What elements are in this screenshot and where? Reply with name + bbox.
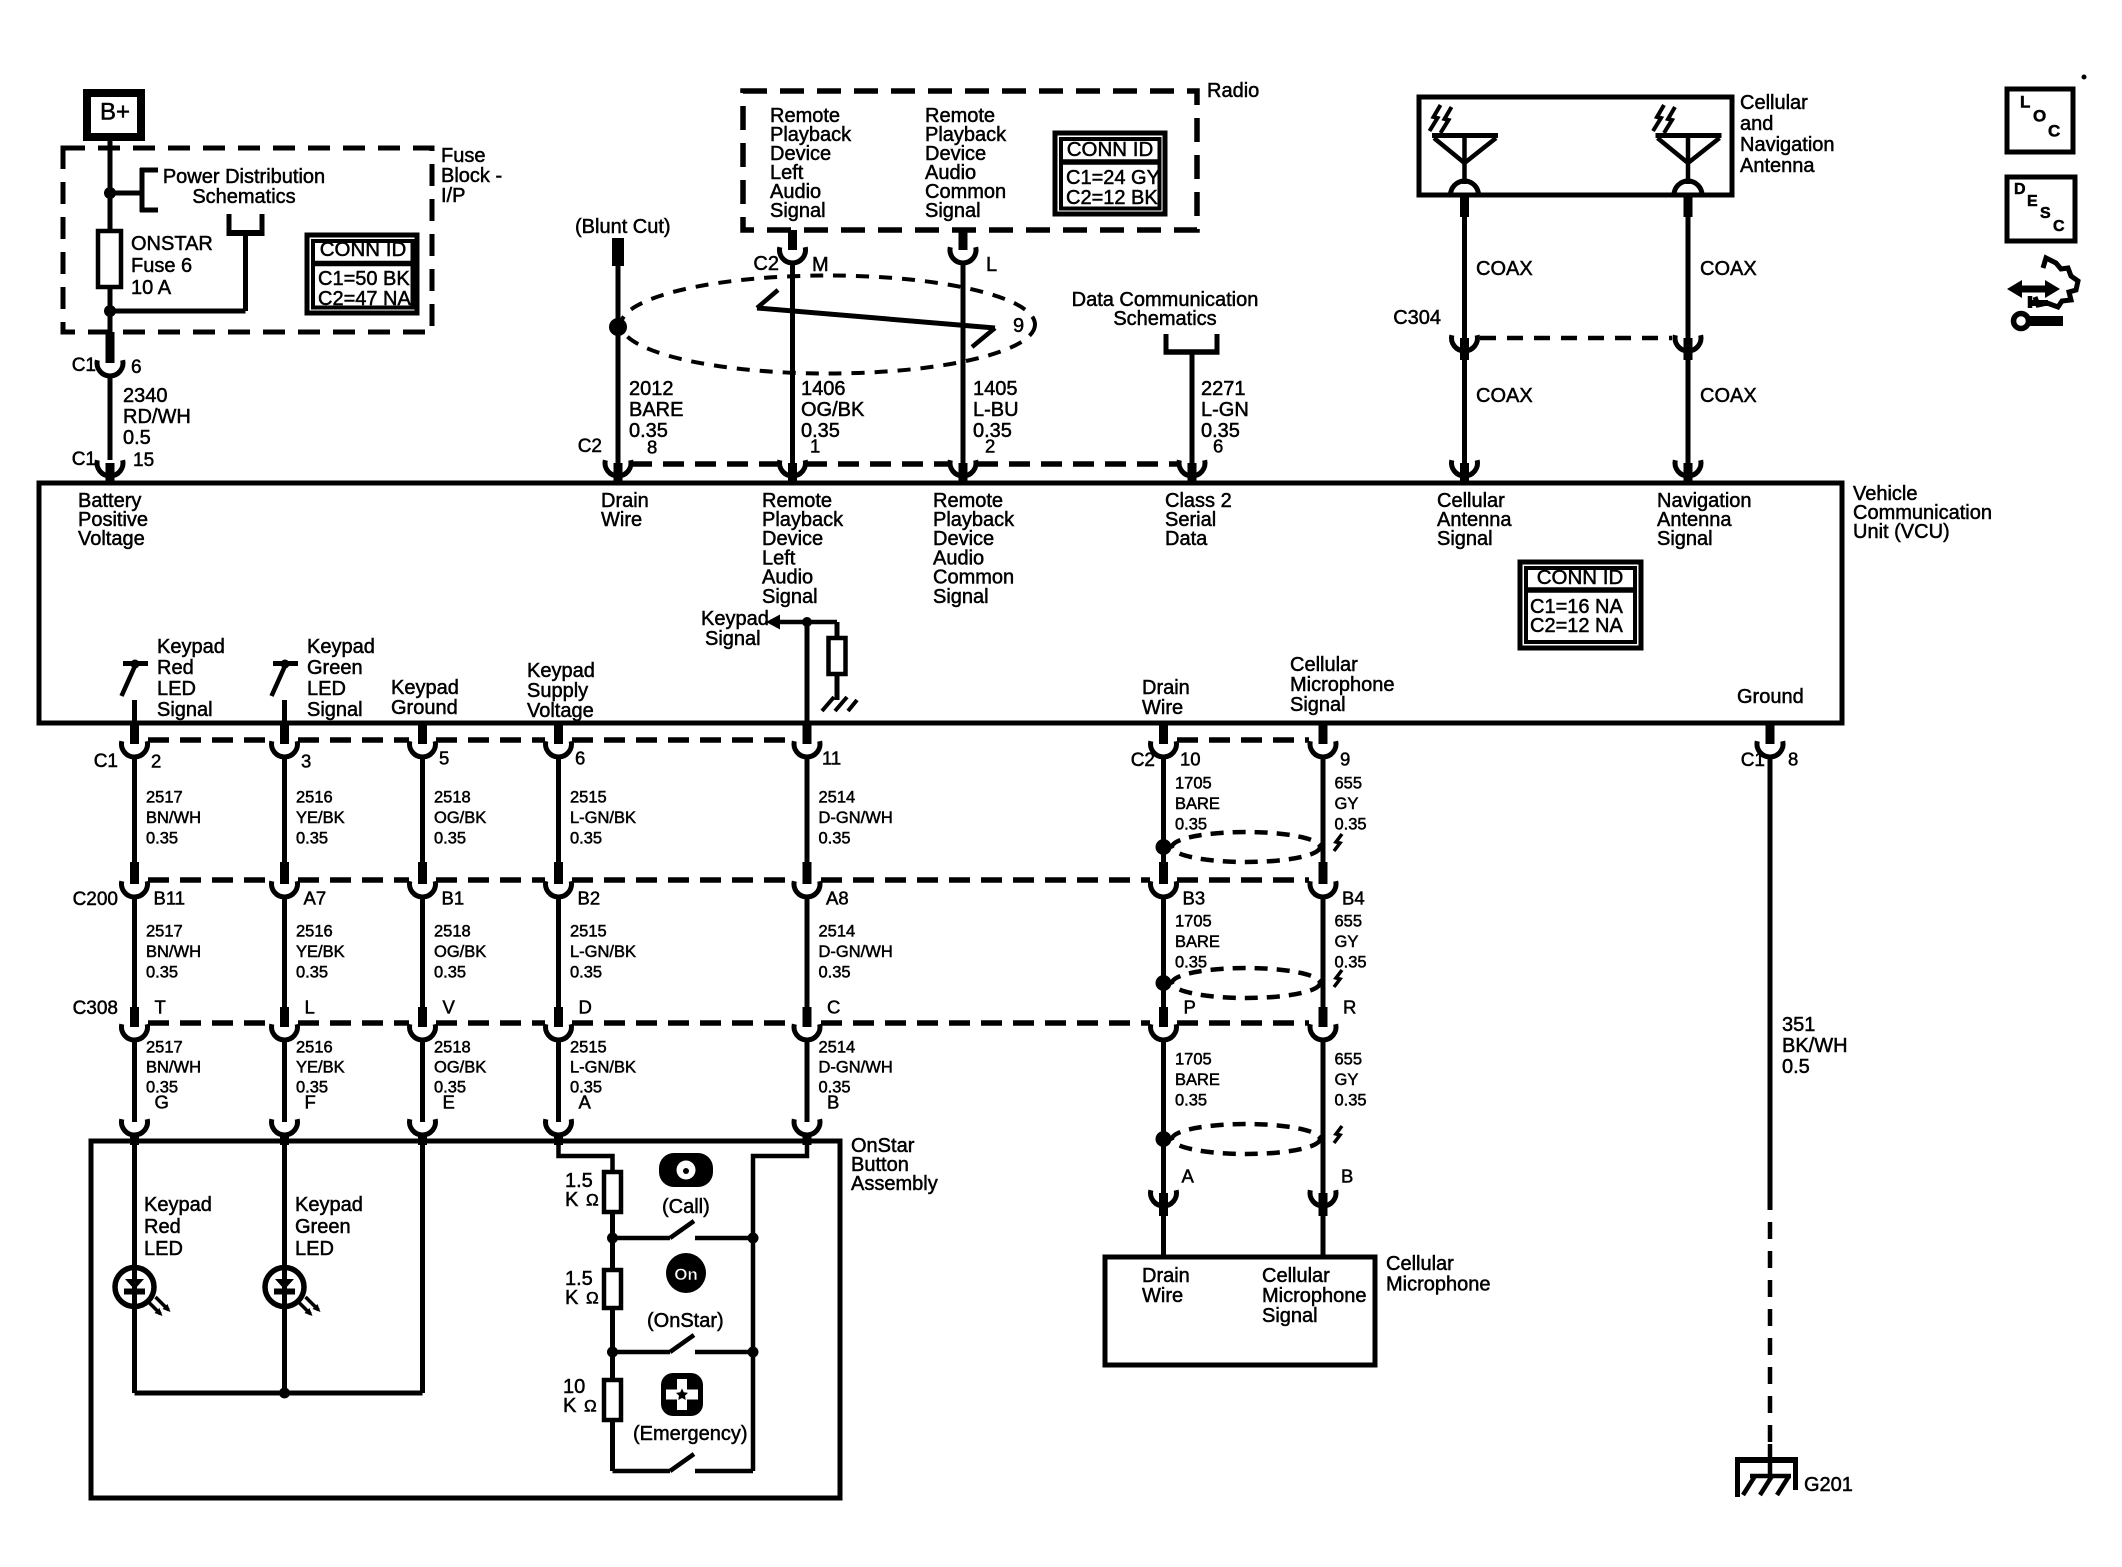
svg-text:B1: B1 bbox=[442, 888, 465, 909]
svg-text:BN/WH: BN/WH bbox=[146, 943, 201, 961]
svg-text:C2: C2 bbox=[753, 253, 779, 275]
svg-text:Keypad: Keypad bbox=[307, 636, 375, 658]
svg-text:C200: C200 bbox=[73, 889, 118, 910]
svg-text:S: S bbox=[2040, 205, 2051, 222]
svg-text:Ground: Ground bbox=[391, 697, 458, 719]
svg-text:2515: 2515 bbox=[570, 788, 607, 806]
svg-text:C1: C1 bbox=[72, 355, 96, 376]
svg-text:L-GN: L-GN bbox=[1201, 399, 1249, 421]
svg-text:BARE: BARE bbox=[1175, 795, 1220, 813]
svg-text:2518: 2518 bbox=[434, 1038, 471, 1056]
svg-text:A8: A8 bbox=[826, 888, 849, 909]
svg-text:Schematics: Schematics bbox=[1113, 308, 1216, 330]
svg-text:L-GN/BK: L-GN/BK bbox=[570, 943, 636, 961]
svg-text:Signal: Signal bbox=[307, 699, 363, 721]
svg-text:C2=12 BK: C2=12 BK bbox=[1066, 187, 1158, 209]
svg-text:Green: Green bbox=[295, 1216, 351, 1238]
svg-text:B: B bbox=[1341, 1166, 1353, 1187]
svg-text:Keypad: Keypad bbox=[701, 608, 769, 630]
svg-text:0.35: 0.35 bbox=[296, 963, 328, 981]
svg-text:2514: 2514 bbox=[819, 788, 856, 806]
svg-text:CONN ID: CONN ID bbox=[1537, 566, 1624, 589]
svg-text:GY: GY bbox=[1335, 933, 1359, 951]
svg-text:Schematics: Schematics bbox=[192, 186, 295, 208]
svg-text:LED: LED bbox=[307, 678, 346, 700]
svg-text:OG/BK: OG/BK bbox=[434, 943, 486, 961]
svg-text:Microphone: Microphone bbox=[1262, 1285, 1367, 1307]
svg-text:Wire: Wire bbox=[1142, 697, 1183, 719]
svg-text:0.35: 0.35 bbox=[570, 829, 602, 847]
svg-text:Signal: Signal bbox=[705, 628, 761, 650]
svg-text:5: 5 bbox=[439, 748, 449, 769]
svg-text:L: L bbox=[2020, 93, 2030, 112]
svg-text:Wire: Wire bbox=[601, 509, 642, 531]
svg-text:F: F bbox=[305, 1092, 316, 1113]
svg-text:2516: 2516 bbox=[296, 922, 333, 940]
svg-text:Ω: Ω bbox=[586, 1191, 599, 1210]
svg-text:E: E bbox=[2027, 193, 2038, 210]
svg-text:0.35: 0.35 bbox=[146, 829, 178, 847]
svg-text:Cellular: Cellular bbox=[1386, 1253, 1454, 1275]
svg-text:1405: 1405 bbox=[973, 378, 1018, 400]
svg-text:K: K bbox=[565, 1189, 579, 1211]
svg-text:8: 8 bbox=[1788, 749, 1798, 770]
svg-text:0.35: 0.35 bbox=[1201, 420, 1240, 442]
svg-text:L-GN/BK: L-GN/BK bbox=[570, 809, 636, 827]
svg-text:Ω: Ω bbox=[584, 1397, 597, 1416]
svg-text:0.35: 0.35 bbox=[801, 420, 840, 442]
svg-text:C1: C1 bbox=[1741, 750, 1765, 771]
svg-text:0.35: 0.35 bbox=[434, 829, 466, 847]
svg-text:Signal: Signal bbox=[925, 200, 981, 222]
svg-text:Signal: Signal bbox=[1290, 694, 1346, 716]
svg-text:Navigation: Navigation bbox=[1740, 134, 1835, 156]
svg-text:G201: G201 bbox=[1804, 1474, 1853, 1496]
svg-text:RD/WH: RD/WH bbox=[123, 406, 191, 428]
svg-text:E: E bbox=[443, 1092, 455, 1113]
svg-text:(OnStar): (OnStar) bbox=[647, 1310, 724, 1332]
svg-text:C2=47 NA: C2=47 NA bbox=[318, 288, 411, 310]
svg-text:COAX: COAX bbox=[1476, 258, 1533, 280]
svg-text:B3: B3 bbox=[1183, 888, 1206, 909]
svg-text:COAX: COAX bbox=[1700, 258, 1757, 280]
svg-text:Ω: Ω bbox=[586, 1289, 599, 1308]
svg-text:Keypad: Keypad bbox=[157, 636, 225, 658]
svg-text:C1: C1 bbox=[72, 449, 96, 470]
svg-text:10: 10 bbox=[1180, 749, 1201, 770]
svg-text:Microphone: Microphone bbox=[1290, 674, 1395, 696]
svg-text:0.5: 0.5 bbox=[123, 427, 151, 449]
svg-text:Drain: Drain bbox=[1142, 677, 1190, 699]
svg-text:C1=24 GY: C1=24 GY bbox=[1066, 167, 1160, 189]
svg-text:0.35: 0.35 bbox=[434, 963, 466, 981]
svg-text:Data: Data bbox=[1165, 528, 1208, 550]
svg-text:D-GN/WH: D-GN/WH bbox=[819, 1058, 893, 1076]
svg-text:YE/BK: YE/BK bbox=[296, 943, 345, 961]
svg-text:Keypad: Keypad bbox=[295, 1194, 363, 1216]
svg-text:L-BU: L-BU bbox=[973, 399, 1019, 421]
svg-text:COAX: COAX bbox=[1476, 385, 1533, 407]
svg-text:Signal: Signal bbox=[1437, 528, 1493, 550]
svg-text:I/P: I/P bbox=[441, 185, 465, 207]
svg-text:2518: 2518 bbox=[434, 922, 471, 940]
svg-text:Voltage: Voltage bbox=[527, 700, 594, 722]
svg-text:Signal: Signal bbox=[770, 200, 826, 222]
svg-text:K: K bbox=[565, 1287, 579, 1309]
svg-text:C: C bbox=[827, 997, 840, 1018]
svg-text:BARE: BARE bbox=[629, 399, 683, 421]
svg-text:and: and bbox=[1740, 113, 1773, 135]
svg-text:D: D bbox=[579, 997, 592, 1018]
svg-text:3: 3 bbox=[301, 751, 311, 772]
svg-text:655: 655 bbox=[1335, 1050, 1363, 1068]
svg-text:655: 655 bbox=[1335, 912, 1363, 930]
svg-text:655: 655 bbox=[1335, 774, 1363, 792]
svg-text:0.35: 0.35 bbox=[1175, 1091, 1207, 1109]
svg-text:2: 2 bbox=[151, 751, 161, 772]
svg-text:Wire: Wire bbox=[1142, 1285, 1183, 1307]
svg-text:OG/BK: OG/BK bbox=[434, 809, 486, 827]
svg-text:2271: 2271 bbox=[1201, 378, 1246, 400]
svg-text:Microphone: Microphone bbox=[1386, 1273, 1491, 1295]
svg-text:BN/WH: BN/WH bbox=[146, 1058, 201, 1076]
svg-text:OG/BK: OG/BK bbox=[801, 399, 865, 421]
svg-text:C: C bbox=[2053, 218, 2065, 235]
svg-text:Voltage: Voltage bbox=[78, 528, 145, 550]
svg-text:1705: 1705 bbox=[1175, 912, 1212, 930]
svg-text:2340: 2340 bbox=[123, 385, 168, 407]
svg-text:0.35: 0.35 bbox=[146, 963, 178, 981]
svg-text:CONN ID: CONN ID bbox=[320, 238, 407, 261]
svg-text:Signal: Signal bbox=[1657, 528, 1713, 550]
svg-text:C1=50 BK: C1=50 BK bbox=[318, 268, 410, 290]
svg-text:0.35: 0.35 bbox=[819, 963, 851, 981]
svg-text:0.35: 0.35 bbox=[296, 829, 328, 847]
svg-text:BK/WH: BK/WH bbox=[1782, 1035, 1848, 1057]
svg-text:YE/BK: YE/BK bbox=[296, 1058, 345, 1076]
svg-text:9: 9 bbox=[1013, 315, 1024, 337]
svg-text:C308: C308 bbox=[73, 998, 118, 1019]
svg-text:2517: 2517 bbox=[146, 788, 183, 806]
svg-text:6: 6 bbox=[575, 748, 585, 769]
svg-text:D-GN/WH: D-GN/WH bbox=[819, 809, 893, 827]
svg-text:D: D bbox=[2014, 181, 2026, 198]
svg-text:Keypad: Keypad bbox=[391, 677, 459, 699]
svg-text:B4: B4 bbox=[1342, 888, 1365, 909]
svg-text:A7: A7 bbox=[304, 888, 327, 909]
svg-text:Fuse 6: Fuse 6 bbox=[131, 255, 192, 277]
svg-text:O: O bbox=[2033, 107, 2046, 126]
svg-text:LED: LED bbox=[144, 1238, 183, 1260]
svg-text:(Emergency): (Emergency) bbox=[633, 1423, 747, 1445]
svg-text:Green: Green bbox=[307, 657, 363, 679]
svg-text:1406: 1406 bbox=[801, 378, 846, 400]
svg-text:2516: 2516 bbox=[296, 788, 333, 806]
svg-text:CONN ID: CONN ID bbox=[1067, 138, 1154, 161]
svg-text:Supply: Supply bbox=[527, 680, 588, 702]
svg-text:Red: Red bbox=[157, 657, 194, 679]
svg-text:LED: LED bbox=[157, 678, 196, 700]
svg-text:15: 15 bbox=[133, 450, 154, 471]
svg-text:Block -: Block - bbox=[441, 165, 502, 187]
svg-text:2517: 2517 bbox=[146, 1038, 183, 1056]
svg-text:Unit (VCU): Unit (VCU) bbox=[1853, 521, 1950, 543]
svg-text:B2: B2 bbox=[578, 888, 601, 909]
svg-text:Cellular: Cellular bbox=[1262, 1265, 1330, 1287]
svg-text:Power Distribution: Power Distribution bbox=[163, 166, 325, 188]
svg-text:Signal: Signal bbox=[933, 586, 989, 608]
svg-text:A: A bbox=[579, 1092, 592, 1113]
svg-text:2516: 2516 bbox=[296, 1038, 333, 1056]
svg-text:Fuse: Fuse bbox=[441, 145, 485, 167]
svg-text:Cellular: Cellular bbox=[1740, 92, 1808, 114]
svg-text:0.35: 0.35 bbox=[819, 829, 851, 847]
svg-text:(Call): (Call) bbox=[662, 1196, 710, 1218]
svg-text:C304: C304 bbox=[1393, 307, 1441, 329]
svg-text:BARE: BARE bbox=[1175, 933, 1220, 951]
svg-text:Keypad: Keypad bbox=[527, 660, 595, 682]
svg-text:2515: 2515 bbox=[570, 922, 607, 940]
svg-text:C2: C2 bbox=[1131, 750, 1155, 771]
svg-text:C2: C2 bbox=[578, 436, 602, 457]
svg-text:Signal: Signal bbox=[762, 586, 818, 608]
svg-text:Signal: Signal bbox=[157, 699, 213, 721]
svg-text:351: 351 bbox=[1782, 1014, 1815, 1036]
svg-text:L: L bbox=[305, 997, 315, 1018]
svg-text:OG/BK: OG/BK bbox=[434, 1058, 486, 1076]
svg-text:A: A bbox=[1182, 1166, 1195, 1187]
svg-text:0.35: 0.35 bbox=[629, 420, 668, 442]
svg-text:LED: LED bbox=[295, 1238, 334, 1260]
svg-text:(Blunt Cut): (Blunt Cut) bbox=[575, 216, 671, 238]
svg-text:R: R bbox=[1343, 997, 1356, 1018]
svg-text:C: C bbox=[2048, 122, 2060, 141]
svg-text:6: 6 bbox=[131, 357, 142, 378]
svg-text:Antenna: Antenna bbox=[1740, 155, 1815, 177]
svg-text:1705: 1705 bbox=[1175, 774, 1212, 792]
svg-text:2517: 2517 bbox=[146, 922, 183, 940]
svg-text:0.35: 0.35 bbox=[1335, 953, 1367, 971]
svg-text:L-GN/BK: L-GN/BK bbox=[570, 1058, 636, 1076]
svg-text:GY: GY bbox=[1335, 1071, 1359, 1089]
svg-text:C1: C1 bbox=[94, 751, 118, 772]
svg-text:M: M bbox=[812, 254, 829, 276]
svg-text:0.35: 0.35 bbox=[1335, 1091, 1367, 1109]
svg-text:V: V bbox=[443, 997, 456, 1018]
svg-text:0.35: 0.35 bbox=[1175, 815, 1207, 833]
svg-text:ONSTAR: ONSTAR bbox=[131, 233, 213, 255]
svg-text:2518: 2518 bbox=[434, 788, 471, 806]
svg-text:0.35: 0.35 bbox=[973, 420, 1012, 442]
svg-text:9: 9 bbox=[1340, 749, 1350, 770]
svg-text:Keypad: Keypad bbox=[144, 1194, 212, 1216]
svg-text:2515: 2515 bbox=[570, 1038, 607, 1056]
svg-text:2514: 2514 bbox=[819, 1038, 856, 1056]
svg-text:G: G bbox=[155, 1092, 169, 1113]
svg-text:B11: B11 bbox=[154, 888, 186, 909]
svg-text:Cellular: Cellular bbox=[1290, 654, 1358, 676]
svg-text:2514: 2514 bbox=[819, 922, 856, 940]
svg-text:2012: 2012 bbox=[629, 378, 674, 400]
svg-text:0.35: 0.35 bbox=[570, 963, 602, 981]
svg-text:B+: B+ bbox=[100, 99, 130, 126]
svg-text:Radio: Radio bbox=[1207, 80, 1259, 102]
svg-text:On: On bbox=[674, 1265, 698, 1284]
svg-text:T: T bbox=[155, 997, 166, 1018]
svg-text:11: 11 bbox=[822, 748, 841, 769]
svg-text:GY: GY bbox=[1335, 795, 1359, 813]
svg-text:0.35: 0.35 bbox=[1175, 953, 1207, 971]
svg-text:0.35: 0.35 bbox=[1335, 815, 1367, 833]
svg-text:K: K bbox=[563, 1395, 577, 1417]
svg-text:Assembly: Assembly bbox=[851, 1173, 938, 1195]
svg-text:COAX: COAX bbox=[1700, 385, 1757, 407]
svg-text:YE/BK: YE/BK bbox=[296, 809, 345, 827]
svg-text:B: B bbox=[827, 1092, 839, 1113]
svg-text:D-GN/WH: D-GN/WH bbox=[819, 943, 893, 961]
svg-text:Ground: Ground bbox=[1737, 686, 1804, 708]
svg-text:1705: 1705 bbox=[1175, 1050, 1212, 1068]
svg-text:BARE: BARE bbox=[1175, 1071, 1220, 1089]
svg-text:C2=12 NA: C2=12 NA bbox=[1530, 615, 1623, 637]
svg-text:BN/WH: BN/WH bbox=[146, 809, 201, 827]
svg-text:Drain: Drain bbox=[1142, 1265, 1190, 1287]
svg-text:L: L bbox=[986, 254, 997, 276]
svg-text:Signal: Signal bbox=[1262, 1305, 1318, 1327]
svg-text:Red: Red bbox=[144, 1216, 181, 1238]
svg-text:0.5: 0.5 bbox=[1782, 1056, 1810, 1078]
svg-text:P: P bbox=[1184, 997, 1196, 1018]
svg-text:10 A: 10 A bbox=[131, 277, 172, 299]
